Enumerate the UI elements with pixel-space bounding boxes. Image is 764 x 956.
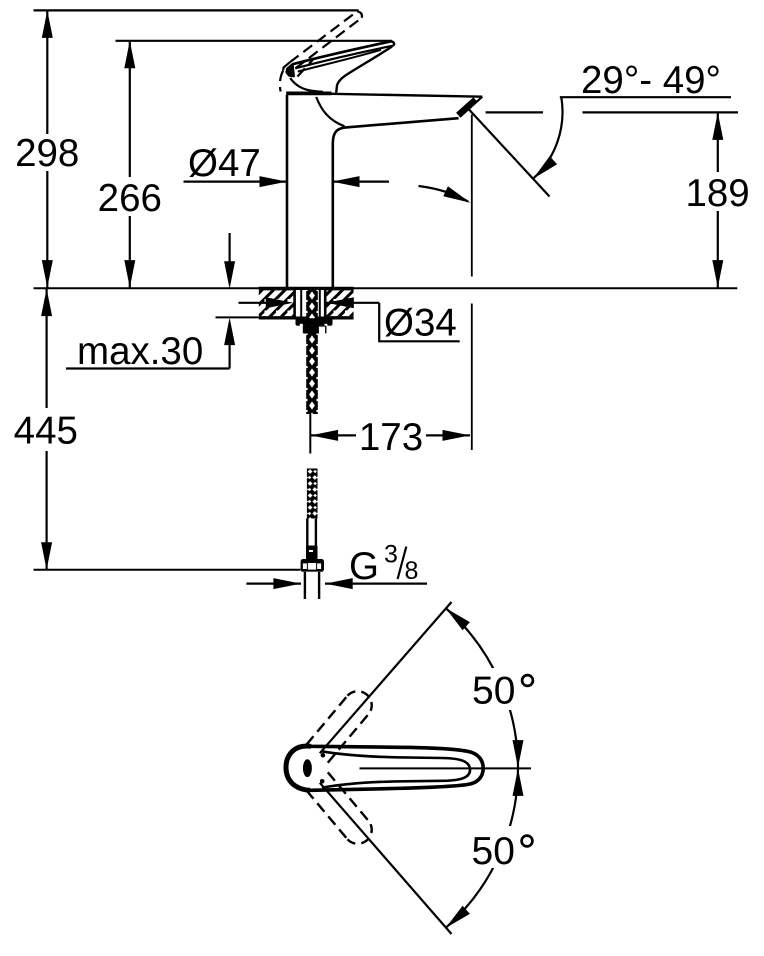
svg-text:445: 445 (14, 410, 78, 453)
svg-text:8: 8 (405, 557, 419, 585)
svg-text:29°- 49°: 29°- 49° (581, 59, 721, 102)
svg-text:max.30: max.30 (77, 330, 203, 373)
svg-text:G: G (349, 545, 379, 588)
svg-text:50: 50 (472, 830, 515, 873)
svg-text:Ø34: Ø34 (384, 302, 457, 345)
svg-text:266: 266 (98, 177, 162, 220)
svg-text:189: 189 (685, 172, 749, 215)
svg-text:3: 3 (384, 541, 398, 569)
svg-text:50: 50 (472, 669, 515, 712)
svg-text:173: 173 (359, 416, 423, 459)
svg-text:298: 298 (15, 132, 79, 175)
svg-text:Ø47: Ø47 (188, 142, 261, 185)
